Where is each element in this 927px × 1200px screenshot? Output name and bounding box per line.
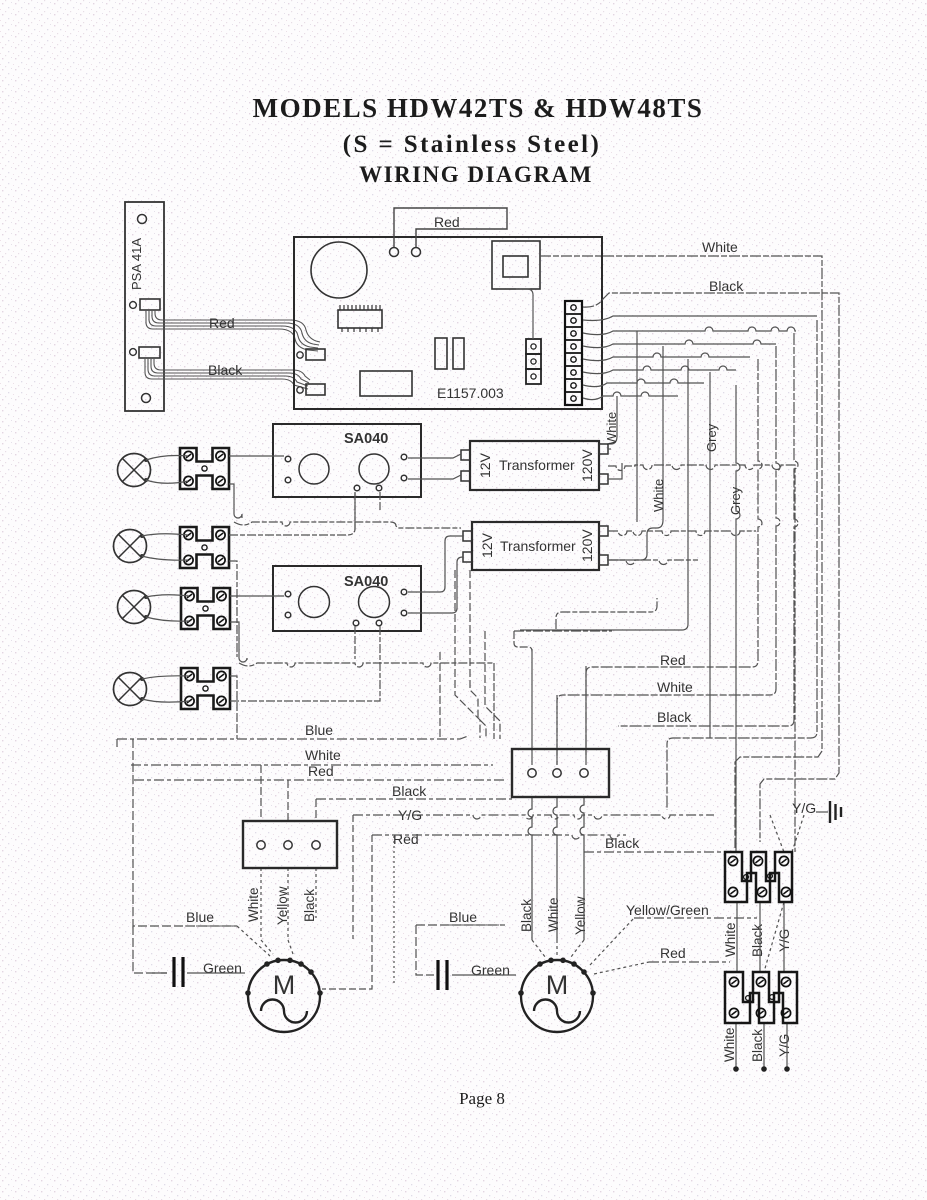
svg-text:Black: Black [750,924,765,957]
svg-text:Black: Black [750,1029,765,1062]
svg-text:Black: Black [657,709,692,725]
svg-text:White: White [546,897,561,932]
svg-text:Transformer: Transformer [499,457,575,473]
svg-text:White: White [657,679,693,695]
svg-text:SA040: SA040 [344,431,388,447]
svg-text:Black: Black [709,278,744,294]
svg-text:White: White [722,1027,737,1062]
svg-text:Yellow: Yellow [573,896,588,935]
svg-text:White: White [702,239,738,255]
svg-text:Blue: Blue [186,909,214,925]
svg-text:White: White [651,479,666,512]
svg-text:PSA 41A: PSA 41A [129,238,144,290]
svg-text:SA040: SA040 [344,574,388,590]
svg-text:120V: 120V [579,449,595,482]
svg-text:White: White [305,747,341,763]
svg-text:Yellow/Green: Yellow/Green [626,902,709,918]
svg-text:Red: Red [434,214,460,230]
svg-text:Red: Red [660,945,686,961]
svg-text:Red: Red [660,652,686,668]
svg-text:Black: Black [302,889,317,922]
svg-text:Red: Red [209,315,235,331]
svg-text:Y/G: Y/G [777,1034,792,1057]
svg-text:Y/G: Y/G [792,800,816,816]
svg-text:Page 8: Page 8 [459,1089,505,1108]
svg-text:Black: Black [392,783,427,799]
svg-text:Grey: Grey [704,423,719,452]
svg-text:12V: 12V [477,452,493,478]
svg-text:WIRING DIAGRAM: WIRING DIAGRAM [359,162,593,187]
svg-text:12V: 12V [479,532,495,558]
svg-text:Red: Red [393,831,419,847]
svg-text:Blue: Blue [305,722,333,738]
svg-text:White: White [246,887,261,922]
svg-text:E1157.003: E1157.003 [437,385,504,401]
svg-text:120V: 120V [579,529,595,562]
svg-text:(S = Stainless Steel): (S = Stainless Steel) [343,131,601,158]
svg-text:White: White [604,412,619,445]
svg-text:Black: Black [208,362,243,378]
svg-text:Grey: Grey [728,486,743,515]
svg-text:Blue: Blue [449,909,477,925]
svg-text:MODELS HDW42TS & HDW48TS: MODELS HDW42TS & HDW48TS [253,93,704,123]
svg-text:White: White [723,922,738,957]
svg-text:Transformer: Transformer [500,538,576,554]
